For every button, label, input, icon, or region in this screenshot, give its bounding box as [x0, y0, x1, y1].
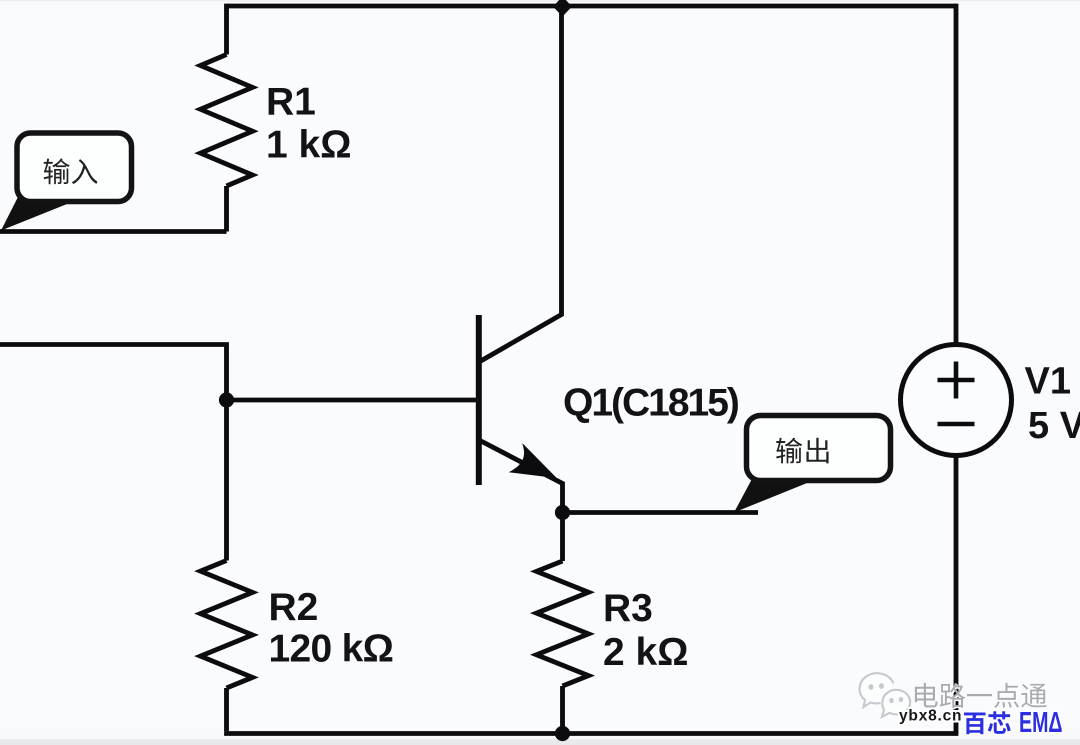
- wire: base wire: [227, 398, 478, 403]
- svg-text:R3: R3: [603, 587, 653, 630]
- transistor Q1 emitter: [479, 440, 563, 513]
- V1 plus sign: [938, 362, 975, 399]
- svg-text:ybx8.cn: ybx8.cn: [899, 708, 962, 725]
- watermark baixin (blue): [964, 713, 986, 735]
- transistor Q1 emitter arrow: [513, 447, 554, 477]
- svg-text:EMΔ: EMΔ: [1019, 707, 1063, 739]
- wire: emitter to R3/output: [563, 510, 759, 515]
- wire: R3 top lead: [560, 513, 565, 562]
- svg-text:Q1(C1815): Q1(C1815): [563, 382, 739, 425]
- wire: V1 top lead: [954, 4, 959, 345]
- output bubble tail: [734, 477, 812, 513]
- wire: R3 bottom lead: [560, 686, 565, 731]
- svg-text:5 V: 5 V: [1028, 405, 1080, 447]
- input bubble text ru: [72, 159, 98, 184]
- transistor Q1 base bar: [476, 315, 482, 485]
- wire: input net to R1: [0, 229, 227, 234]
- output bubble text chu: [806, 438, 828, 464]
- svg-text:R2: R2: [269, 586, 319, 629]
- wire: top rail VCC: [227, 4, 957, 9]
- watermark text dianlu yidiantong: [916, 684, 1048, 709]
- wire: V1 bottom lead: [954, 456, 959, 734]
- svg-text:V1: V1: [1025, 361, 1071, 403]
- svg-text:2 kΩ: 2 kΩ: [603, 631, 688, 674]
- svg-text:1 kΩ: 1 kΩ: [266, 124, 351, 167]
- V1 minus sign: [938, 422, 975, 427]
- svg-text:120 kΩ: 120 kΩ: [269, 628, 394, 671]
- output bubble text shu: [776, 438, 802, 464]
- resistor R3 body: [537, 561, 589, 686]
- junction dot bottom: [555, 726, 570, 741]
- output bubble box: [747, 416, 891, 481]
- watermark wechat icon: [860, 673, 911, 717]
- input bubble box: [17, 133, 132, 202]
- svg-text:R1: R1: [266, 81, 316, 124]
- resistor R2 body: [201, 561, 253, 689]
- wire: R2 top lead: [224, 400, 229, 561]
- transistor Q1 collector: [479, 6, 562, 362]
- input bubble text shu: [44, 158, 70, 184]
- input bubble tail: [1, 193, 72, 231]
- junction dot base: [219, 392, 234, 407]
- voltage source V1 circle: [901, 345, 1012, 456]
- wire: input net lower run: [0, 342, 227, 400]
- wire: bottom rail: [224, 731, 958, 736]
- wire: R2 bottom lead: [224, 688, 229, 731]
- junction dot emitter: [555, 505, 570, 520]
- top edge line: [0, 0, 1080, 2]
- wire: R1 top lead: [224, 4, 229, 55]
- resistor R1 body: [201, 55, 253, 187]
- junction dot top (collector/VCC): [553, 0, 572, 17]
- bottom edge strip: [0, 740, 1080, 745]
- wire: R1 bottom lead: [224, 186, 229, 232]
